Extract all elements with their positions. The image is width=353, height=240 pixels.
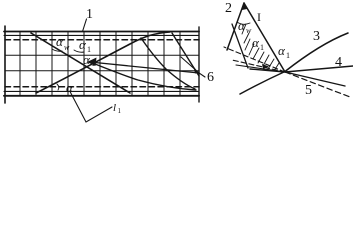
- svg-text:α: α: [79, 37, 87, 52]
- triangle left side: [227, 3, 244, 50]
- arrowhead of leader 6: [194, 67, 200, 74]
- svg-text:α: α: [56, 34, 64, 49]
- ray c from point Q descending flattening: [90, 62, 196, 90]
- svg-text:1: 1: [118, 107, 122, 115]
- grid horizontal line upper: [5, 54, 199, 56]
- svg-text:α: α: [238, 18, 246, 33]
- svg-text:4: 4: [335, 55, 342, 70]
- angle arc alpha_w at apex: [237, 22, 250, 24]
- apex arrowhead: [242, 3, 247, 10]
- angle arc near alpha bottom: [57, 84, 59, 90]
- svg-text:6: 6: [207, 70, 214, 85]
- hatching in triangle I: [242, 24, 279, 71]
- grid horizontal line lower: [5, 70, 199, 72]
- leader line of label 1: [83, 19, 87, 32]
- svg-text:l: l: [113, 102, 116, 114]
- dashed line near top: [5, 39, 199, 41]
- line 3: [240, 33, 348, 94]
- svg-text:1: 1: [260, 43, 264, 52]
- svg-text:1: 1: [86, 7, 93, 22]
- curve D1 descending left-to-right: [31, 33, 130, 93]
- svg-text:1: 1: [91, 59, 95, 68]
- grid vertical lines: [20, 32, 180, 96]
- line 5 solid: [285, 72, 345, 86]
- leader line of label l1 (kinked): [70, 92, 112, 123]
- dashed ray lower right: [285, 72, 350, 97]
- dashed line near bottom: [5, 86, 199, 88]
- strip right edge: [198, 27, 200, 102]
- ray P to apex (line from 2): [244, 3, 285, 72]
- svg-text:3: 3: [313, 29, 320, 44]
- svg-text:1: 1: [286, 51, 290, 60]
- arrowhead on line 4: [262, 64, 269, 69]
- line 4: [250, 66, 353, 72]
- arrowhead at point Q: [87, 58, 97, 67]
- steep crossing line near 2: [232, 24, 248, 68]
- steep line A right side: [172, 33, 199, 76]
- angle arc near alpha_1 top: [74, 50, 84, 52]
- curve R1 rising left-to-right: [36, 32, 170, 93]
- strip bottom edge inner line: [4, 90, 199, 92]
- svg-text:w: w: [246, 26, 252, 35]
- curve D3 steep descending right half: [141, 38, 195, 89]
- dashed ray P left: [232, 60, 285, 72]
- dashed ray P upper-left: [224, 47, 285, 72]
- svg-text:w: w: [64, 43, 70, 52]
- svg-text:5: 5: [305, 83, 312, 98]
- angle arc near alpha_w: [52, 49, 62, 51]
- strip bottom edge outer line: [4, 95, 199, 97]
- svg-text:2: 2: [225, 1, 232, 16]
- strip top edge outer line: [4, 31, 199, 33]
- svg-text:α: α: [66, 80, 74, 95]
- strip left edge: [4, 26, 6, 103]
- triangle bottom line: [236, 65, 285, 72]
- leader line of label 6: [181, 57, 205, 77]
- strip top edge inner line: [4, 34, 199, 36]
- svg-text:I: I: [257, 10, 261, 24]
- svg-text:α: α: [278, 43, 286, 58]
- svg-text:α: α: [252, 35, 260, 50]
- svg-text:α: α: [83, 52, 91, 67]
- ray b from point Q gentle to right edge: [90, 62, 199, 73]
